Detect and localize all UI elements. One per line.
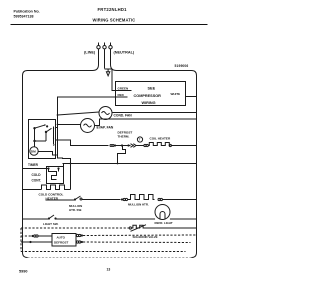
mullion heater element <box>129 195 155 200</box>
green ground wire to compressor <box>105 69 116 91</box>
defrost control dashed enclosure <box>21 228 186 252</box>
condenser fan motor <box>58 107 197 120</box>
cold control heater return vertical <box>70 164 72 190</box>
timer internal wires <box>33 128 46 142</box>
cold control box <box>47 164 64 184</box>
mullion heater connector left <box>121 198 129 200</box>
timer switch 1 <box>33 124 48 129</box>
svg-text:COIL HEATER: COIL HEATER <box>150 137 171 141</box>
power cord plug prong (ground) <box>103 43 106 69</box>
cold control switch <box>47 167 59 179</box>
power cord plug prong (LINE) <box>93 43 101 71</box>
staircase jog to neutral line <box>118 146 126 164</box>
wire red feed to compressor <box>58 97 128 101</box>
svg-text:DM: DM <box>31 150 36 154</box>
timer motor return wire <box>58 156 71 164</box>
svg-text:COLD: COLD <box>32 173 42 177</box>
svg-text:LIGHT SW.: LIGHT SW. <box>43 222 58 226</box>
mullion heater connector right <box>158 198 197 200</box>
defrost connector <box>122 144 148 148</box>
defrost heater circuit wire from timer <box>56 140 124 147</box>
defrost thermostat symbol <box>137 137 142 142</box>
svg-text:5199006: 5199006 <box>175 64 189 68</box>
svg-text:(NEUTRAL): (NEUTRAL) <box>114 51 135 55</box>
auto defrost control box <box>52 234 76 247</box>
wire white compressor to neutral <box>186 96 197 98</box>
wire line bus to cold control <box>23 168 49 170</box>
svg-text:REFR. LIGHT: REFR. LIGHT <box>155 221 173 225</box>
svg-text:THERM.: THERM. <box>118 135 130 139</box>
svg-text:1: 1 <box>53 136 55 140</box>
svg-text:MULLION HTR.: MULLION HTR. <box>128 203 149 207</box>
label MULLION SW <box>69 204 82 212</box>
svg-text:4: 4 <box>53 126 55 130</box>
svg-text:CONT.: CONT. <box>32 179 42 183</box>
schematic border (LINE bus left / NEUTRAL bus right) <box>23 71 197 258</box>
svg-text:HTR. SW.: HTR. SW. <box>69 208 82 212</box>
svg-text:COMPRESSOR: COMPRESSOR <box>134 94 162 98</box>
label COLD CONT <box>32 173 42 183</box>
defrost heater element <box>148 143 196 147</box>
header publication number <box>14 10 40 19</box>
svg-text:5990: 5990 <box>19 270 27 274</box>
line feed vertical bus <box>57 101 59 156</box>
neutral return line <box>63 163 197 165</box>
timer switch 2 <box>45 127 54 145</box>
defrost timer box <box>28 120 56 168</box>
svg-text:GREEN: GREEN <box>118 87 129 91</box>
timer terminal 4 stub to line bus <box>56 127 58 129</box>
svg-text:SEE: SEE <box>148 87 156 91</box>
svg-text:COND. FAN: COND. FAN <box>114 114 133 118</box>
svg-text:(LINE): (LINE) <box>84 51 96 55</box>
auto defrost output connector bottom <box>76 241 190 243</box>
svg-text:EVAP. FAN: EVAP. FAN <box>97 126 114 130</box>
svg-text:FRT22NLHD1: FRT22NLHD1 <box>98 7 128 12</box>
svg-text:5995347138: 5995347138 <box>14 15 34 19</box>
svg-text:TIMER: TIMER <box>28 163 39 167</box>
timer motor DM <box>30 141 56 155</box>
cold control heater element <box>23 185 71 190</box>
svg-text:DEFROST: DEFROST <box>54 241 69 245</box>
refrigerator light bulb <box>155 205 197 220</box>
header rule <box>11 24 208 26</box>
compressor box SEE COMPRESSOR WIRING <box>116 82 186 106</box>
label COLD CONTROL HEATER <box>39 193 64 201</box>
header title WIRING SCHEMATIC <box>93 18 136 23</box>
svg-text:WIRING SCHEMATIC: WIRING SCHEMATIC <box>93 18 136 23</box>
solenoid valve element <box>129 225 196 232</box>
label DEFROST THERM <box>118 131 133 139</box>
timer terminal numbers <box>53 126 58 157</box>
auto defrost input wire 2 <box>21 241 52 243</box>
svg-text:13: 13 <box>107 268 111 272</box>
svg-text:WHITE: WHITE <box>171 92 181 96</box>
svg-text:Publication No.: Publication No. <box>14 10 40 14</box>
svg-text:AUTO: AUTO <box>57 236 66 240</box>
auto defrost output connector top <box>76 234 195 236</box>
light switch <box>23 215 156 220</box>
evaporator fan motor <box>58 119 197 133</box>
power cord plug prong (NEUTRAL) <box>109 43 117 71</box>
header model number <box>98 7 128 12</box>
svg-text:RED: RED <box>118 93 125 97</box>
svg-text:T: T <box>139 138 141 142</box>
chassis ground arrow <box>106 69 109 76</box>
mullion switch <box>46 196 121 201</box>
svg-text:2: 2 <box>53 143 55 147</box>
svg-text:WIRING: WIRING <box>142 101 156 105</box>
auto defrost input connector <box>21 235 52 237</box>
